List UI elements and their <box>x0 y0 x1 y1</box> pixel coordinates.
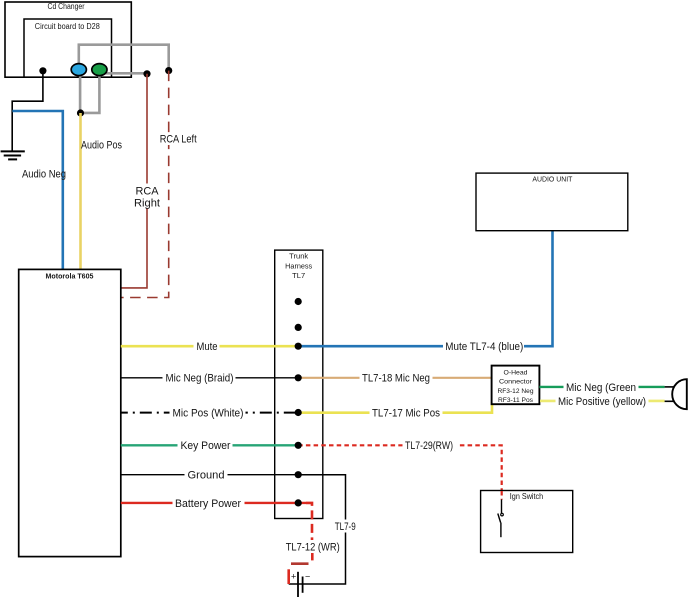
svg-text:Circuit board to D28: Circuit board to D28 <box>35 22 100 31</box>
gray wire from blue jack up and over to RCA-left node <box>79 45 169 68</box>
node RCA left <box>165 67 172 74</box>
ground wire black <box>121 474 298 476</box>
red dashed tail into ign switch <box>501 491 503 500</box>
node TL7-29 <box>295 442 302 449</box>
mic neg wire orange to O-Head connector <box>298 377 491 379</box>
AUDIO UNIT box <box>476 173 628 231</box>
svg-text:Cd Changer: Cd Changer <box>48 2 85 11</box>
svg-text:Motorola T605: Motorola T605 <box>46 271 94 280</box>
battery minus plate <box>302 577 304 593</box>
label Mute <box>194 340 220 354</box>
RCA left wire (dark red dashed) down into Motorola T605 <box>121 71 169 298</box>
ign switch symbol <box>498 500 504 538</box>
blue RCA jack <box>71 64 86 76</box>
svg-text:RF3-12 Neg: RF3-12 Neg <box>498 388 534 395</box>
node on circuit board (audio neg) <box>39 67 46 74</box>
svg-text:Mic Positive (yellow): Mic Positive (yellow) <box>558 396 646 408</box>
gray wire from blue jack down to audio-pos node <box>79 74 82 113</box>
audio neg wire (blue) over and down to Motorola T605 <box>12 111 62 269</box>
svg-text:Mic Neg (Green: Mic Neg (Green <box>566 382 636 394</box>
node RCA right <box>143 70 150 77</box>
green RCA jack <box>92 64 107 76</box>
label TL7-9 <box>332 520 359 533</box>
svg-text:Mic Pos (White): Mic Pos (White) <box>173 408 244 420</box>
svg-text:TL7-12 (WR): TL7-12 (WR) <box>286 542 340 554</box>
black stub green to mic <box>665 386 676 388</box>
svg-text:Mute TL7-4 (blue): Mute TL7-4 (blue) <box>445 341 523 353</box>
label Mic Pos (White) <box>170 406 246 420</box>
ground <box>1 151 25 159</box>
mic pos wire yellow to O-Head connector <box>298 403 492 413</box>
svg-text:−: − <box>305 572 310 582</box>
Motorola T605 box <box>19 269 121 556</box>
node audio pos <box>77 109 84 116</box>
label Key Power <box>178 439 233 453</box>
svg-text:AUDIO UNIT: AUDIO UNIT <box>532 174 572 183</box>
svg-text:TL7: TL7 <box>292 273 305 280</box>
label TL7-29(RW) <box>403 439 458 453</box>
Ign Switch box <box>481 491 573 553</box>
mic neg wire black <box>121 377 298 379</box>
svg-text:Audio Neg: Audio Neg <box>22 169 66 181</box>
svg-text:Mute: Mute <box>197 341 218 353</box>
svg-text:Harness: Harness <box>285 263 313 270</box>
gray wire from green jack right to RCA-right node <box>103 72 147 75</box>
node TL7-17 <box>295 409 302 416</box>
key power wire red dashed to ign switch <box>298 445 502 490</box>
RCA right wire (dark red) down into Motorola T605 <box>121 74 147 288</box>
svg-text:TL7-29(RW): TL7-29(RW) <box>405 440 453 452</box>
audio pos wire (yellow) down to Motorola T605 <box>79 113 82 269</box>
svg-text:Mic Neg (Braid): Mic Neg (Braid) <box>166 373 234 385</box>
label Mic Neg (Green <box>564 380 639 394</box>
svg-text:Ground: Ground <box>188 470 225 482</box>
key power wire green <box>121 444 298 446</box>
mic pos wire dash-dot <box>121 412 298 414</box>
svg-text:Key Power: Key Power <box>181 440 231 452</box>
svg-text:Ign Switch: Ign Switch <box>510 491 544 501</box>
battery power wire red <box>121 502 306 504</box>
svg-text:TL7-9: TL7-9 <box>335 521 356 533</box>
label Battery Power <box>173 496 245 510</box>
label Ground <box>185 468 228 482</box>
svg-text:Trunk: Trunk <box>289 254 309 261</box>
label TL7-17 Mic Pos <box>370 406 443 420</box>
mic pos wire pale yellow to microphone <box>540 400 665 403</box>
svg-text:O-Head: O-Head <box>504 369 528 376</box>
node ground <box>295 471 302 478</box>
microphone symbol <box>672 379 687 409</box>
label RCA Left <box>157 133 199 146</box>
svg-text:Connector: Connector <box>499 379 533 386</box>
Trunk Harness TL7 box <box>275 250 323 518</box>
svg-text:Battery Power: Battery Power <box>175 498 241 510</box>
gray wire from green jack down-left to audio-pos node <box>81 74 99 113</box>
mute wire yellow <box>121 345 298 348</box>
svg-text:RCA Left: RCA Left <box>160 134 197 146</box>
svg-text:TL7-17 Mic Pos: TL7-17 Mic Pos <box>372 408 440 420</box>
circuit board inner box <box>24 19 112 77</box>
O-Head connector box <box>492 366 540 405</box>
spare node 1 <box>295 298 302 305</box>
svg-text:+: + <box>291 572 296 582</box>
battery power wire red dashed to battery plus <box>306 503 312 541</box>
CD changer outer box <box>5 2 131 77</box>
svg-text:Audio Pos: Audio Pos <box>81 139 122 151</box>
label RCA Right <box>134 184 160 210</box>
battery plus plate <box>297 572 299 597</box>
label TL7-18 Mic Neg <box>360 371 433 385</box>
black stub yellow to mic <box>665 400 675 402</box>
svg-text:TL7-18 Mic Neg: TL7-18 Mic Neg <box>362 373 430 385</box>
audio neg wire (black) from board node down to ground <box>12 74 43 151</box>
svg-text:RCA: RCA <box>136 186 160 198</box>
label Mute TL7-4 (blue) <box>443 339 524 354</box>
node TL7-18 <box>295 374 302 381</box>
mic neg wire green to microphone <box>539 386 664 388</box>
svg-text:RF3-11 Pos: RF3-11 Pos <box>498 397 534 404</box>
ground wire TL7-9 to battery minus <box>289 475 346 584</box>
node TL7-12 <box>295 499 302 506</box>
spare node 2 <box>295 324 302 331</box>
label Mic Neg (Braid) <box>163 371 236 385</box>
node mute TL7-4 <box>295 343 302 350</box>
mute wire blue to audio unit <box>298 231 552 347</box>
label Mic Positive (yellow) <box>556 394 649 408</box>
label TL7-12 (WR) <box>283 540 343 554</box>
svg-text:Right: Right <box>134 197 160 209</box>
